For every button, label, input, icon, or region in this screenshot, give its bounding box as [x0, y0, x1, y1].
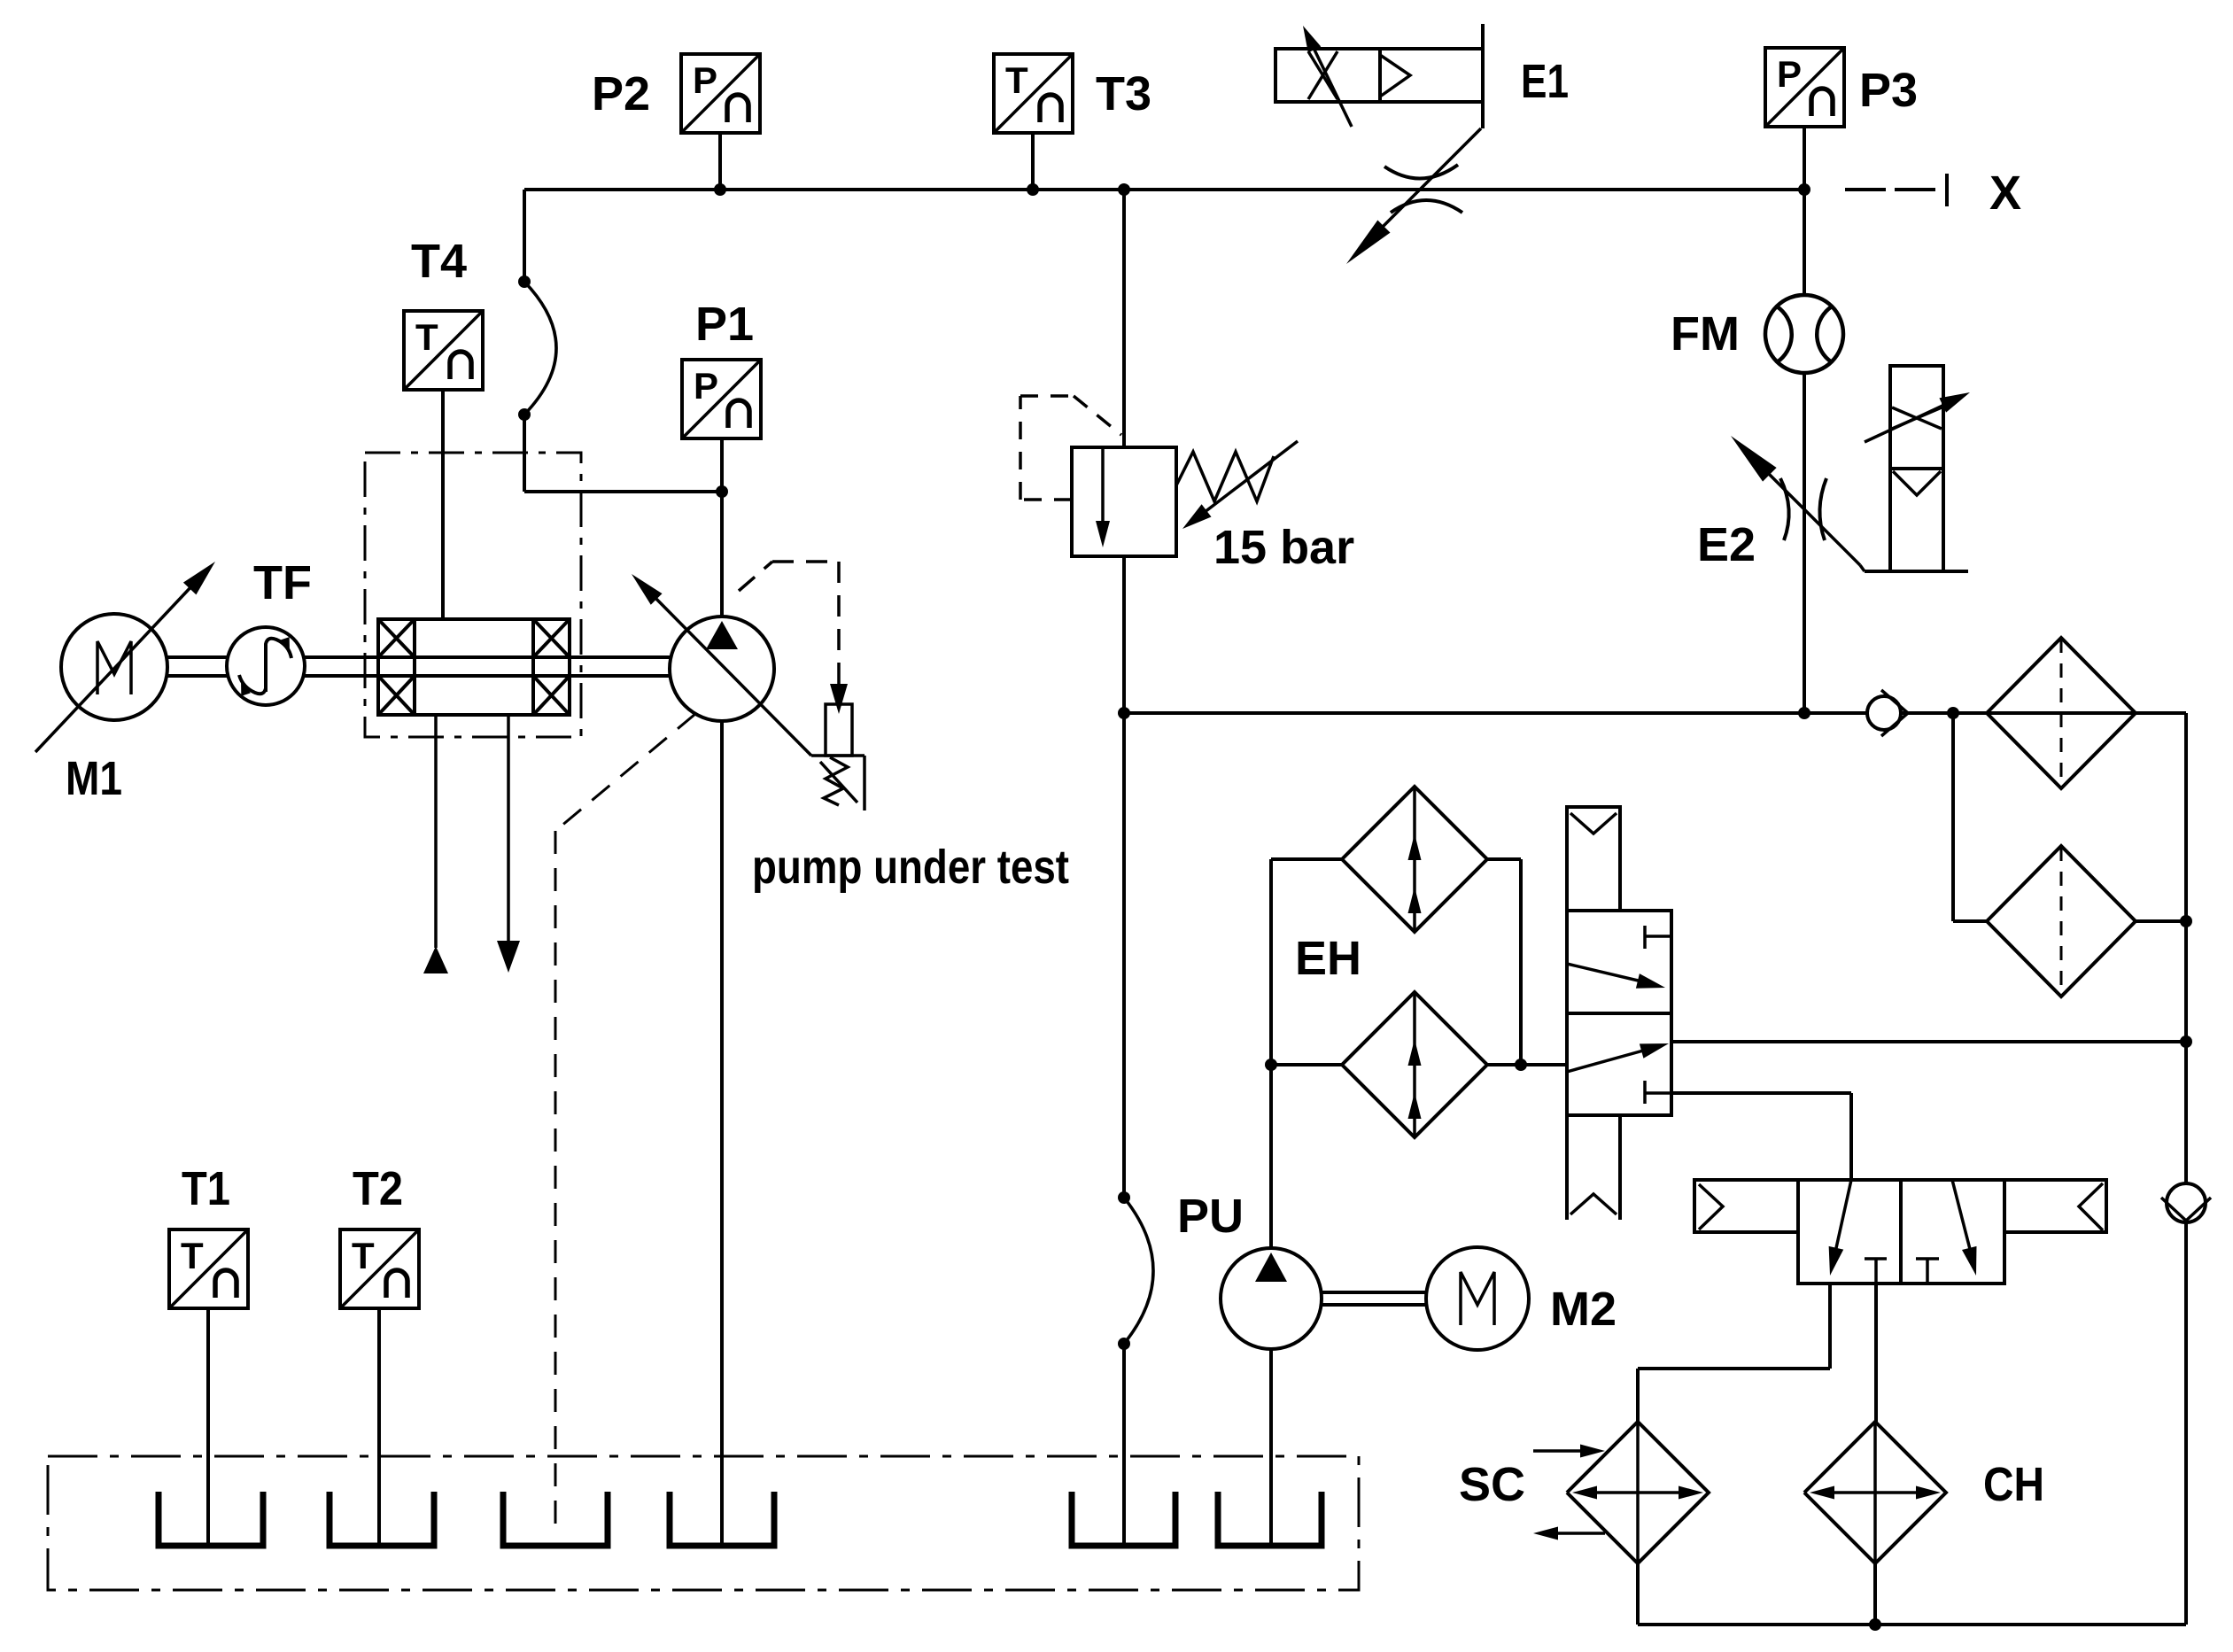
filter F1 diamond	[1987, 638, 2136, 788]
svg-text:M1: M1	[66, 752, 122, 805]
wire trunk below relief	[1122, 556, 1126, 713]
svg-text:T: T	[1005, 59, 1028, 101]
sensor T1 box	[169, 1229, 248, 1308]
wire V1 output to right trunk	[1671, 1040, 2186, 1043]
pump variable arrow	[632, 574, 811, 756]
tank port cup 5	[1072, 1492, 1175, 1546]
heat exchanger CH diamond	[1804, 1422, 1946, 1563]
label 15 bar	[1213, 521, 1354, 574]
valve V2 body	[1798, 1180, 2004, 1284]
label TF	[253, 556, 312, 609]
svg-text:P2: P2	[592, 67, 650, 120]
valve E2 flow control cartridge	[1865, 366, 1970, 571]
svg-text:T: T	[352, 1235, 375, 1276]
bearing block (pump mount)	[378, 619, 570, 715]
valve V1 bottom tank port	[1567, 1115, 1620, 1220]
label CH	[1983, 1458, 2044, 1511]
wire filter F2 to right trunk	[2136, 919, 2186, 923]
cooler SC coolant out arrow	[1533, 1527, 1605, 1540]
motor M2	[1426, 1247, 1529, 1350]
tank port cup 4	[670, 1492, 774, 1546]
wire T3 drop	[1031, 133, 1035, 190]
wire T1 drop	[206, 1308, 210, 1545]
heater EH lower diamond	[1342, 992, 1487, 1137]
wire P2 drop	[718, 133, 722, 190]
label T3	[1096, 67, 1151, 120]
svg-text:P: P	[693, 59, 717, 101]
tank boundary dash-dot box	[48, 1456, 1359, 1590]
svg-text:EH: EH	[1295, 932, 1361, 985]
svg-text:T3: T3	[1096, 67, 1151, 120]
label SC	[1459, 1458, 1525, 1511]
sensor P1 box	[682, 360, 761, 438]
sensor T2 box	[340, 1229, 419, 1308]
wire PU suction to tank	[1269, 1349, 1273, 1545]
label T4	[411, 235, 467, 288]
wire T4 drop	[441, 390, 445, 619]
pump compensator relief	[739, 562, 865, 810]
check valve on lower bus	[1867, 690, 1908, 736]
node right trunk F2 junction	[2180, 915, 2192, 927]
node trunk junction top	[1118, 183, 1130, 196]
wire filter F1 to right trunk	[2136, 711, 2186, 715]
cooler SC diamond	[1567, 1422, 1709, 1563]
valve E1 body	[1275, 26, 1483, 127]
shaft block-pump	[570, 657, 671, 676]
wire P1 drop to pump	[720, 492, 724, 617]
enclosure pump-under-test boundary	[365, 453, 581, 737]
sensor P3 box	[1765, 48, 1844, 127]
label T1	[182, 1162, 230, 1215]
wire trunk to hose	[1122, 713, 1126, 1198]
wire left branch lower segment	[524, 415, 722, 492]
svg-text:M2: M2	[1550, 1283, 1617, 1336]
svg-text:P: P	[1777, 53, 1802, 95]
hose break symbol (flexible line) on left branch	[518, 275, 556, 421]
wire SC bottom leg	[1636, 1563, 1640, 1625]
tank port cup 6	[1218, 1492, 1322, 1546]
wire trunk upper	[1122, 190, 1126, 447]
wire T2 drop	[377, 1308, 381, 1545]
svg-text:T4: T4	[411, 235, 467, 288]
svg-text:T2: T2	[353, 1162, 403, 1215]
svg-text:X: X	[1989, 167, 2021, 220]
motor M1	[61, 614, 167, 720]
svg-text:SC: SC	[1459, 1458, 1525, 1511]
svg-text:E2: E2	[1697, 518, 1756, 571]
wire P3 drop	[1803, 127, 1806, 190]
wire trunk hose to tank	[1122, 1344, 1126, 1545]
svg-text:T1: T1	[182, 1162, 230, 1215]
sensor T4 box	[404, 311, 483, 390]
throttle E1 diagonal with restrictor arcs	[1346, 128, 1481, 264]
node CH bottom junction	[1869, 1618, 1881, 1631]
label P3	[1859, 64, 1918, 117]
wire EH bottom row right	[1487, 1063, 1567, 1066]
label T2	[353, 1162, 403, 1215]
node trunk-lowbus junction	[1118, 707, 1130, 719]
torque/speed sensor TF	[227, 627, 305, 705]
tank port cup 2	[330, 1492, 434, 1546]
label M1	[66, 752, 122, 805]
relief valve pilot dashed line	[1020, 396, 1121, 500]
case drain dashed line	[555, 714, 695, 1532]
wire right trunk lower	[2184, 1222, 2188, 1625]
wire CH bottom leg	[1873, 1563, 1877, 1625]
node EH right rail junction	[1515, 1059, 1527, 1071]
relief valve spring	[1176, 452, 1274, 501]
node P1 junction	[716, 485, 728, 498]
svg-text:pump under test: pump under test	[752, 841, 1069, 894]
wire PU feed from EH	[1269, 1065, 1273, 1249]
svg-text:FM: FM	[1671, 307, 1740, 361]
wire dashed to node X	[1845, 188, 1935, 191]
node T3 junction	[1027, 183, 1039, 196]
svg-text:E1: E1	[1521, 55, 1569, 108]
node P2 junction	[714, 183, 726, 196]
label X	[1989, 167, 2021, 220]
check valve on right trunk	[2161, 1183, 2211, 1222]
filter F2 diamond	[1987, 846, 2136, 997]
tank port cup 1	[159, 1492, 263, 1546]
svg-text:P: P	[694, 365, 718, 407]
bearing block drain arrow down	[497, 715, 520, 973]
label FM	[1671, 307, 1740, 361]
bearing block drain arrow up	[423, 715, 448, 973]
svg-text:PU: PU	[1177, 1190, 1244, 1243]
relief valve 15 bar body	[1072, 447, 1176, 556]
svg-text:P1: P1	[695, 298, 754, 351]
wire P1 sensor drop	[720, 438, 724, 492]
hose break symbol on trunk	[1118, 1191, 1153, 1350]
sensor P2 box	[681, 54, 760, 133]
node P3 junction	[1798, 183, 1810, 196]
wire EH top row right	[1487, 859, 1521, 1065]
label M2	[1550, 1283, 1617, 1336]
shaft TF-bearing block	[303, 657, 378, 676]
label EH	[1295, 932, 1361, 985]
valve V1 top tank port	[1567, 807, 1620, 911]
label P2	[592, 67, 650, 120]
motor M1 variable arrow	[35, 562, 215, 752]
relief valve adjust arrow	[1182, 441, 1298, 529]
label pump under test	[752, 841, 1069, 894]
pump PU	[1221, 1248, 1322, 1349]
throttle E2 diagonal with restrictor arcs	[1731, 436, 1865, 571]
heater EH upper diamond	[1342, 787, 1487, 932]
wire FM vertical upper	[1803, 190, 1806, 294]
wire E2 bottom line	[1865, 570, 1968, 573]
label E1	[1521, 55, 1569, 108]
svg-text:P3: P3	[1859, 64, 1918, 117]
wire E1 right edge stub	[1481, 24, 1485, 128]
shaft M1-TF	[166, 657, 229, 676]
svg-text:15 bar: 15 bar	[1213, 521, 1354, 574]
svg-text:CH: CH	[1983, 1458, 2044, 1511]
node filter branch junction	[1947, 707, 1959, 719]
label E2	[1697, 518, 1756, 571]
shaft PU-M2 coupling	[1322, 1292, 1427, 1305]
wire EH left rail	[1271, 859, 1342, 1065]
wire filter branch down	[1953, 713, 1987, 921]
wire pump outlet to tank	[720, 721, 724, 1545]
cooler SC coolant in arrow	[1533, 1445, 1605, 1458]
label PU	[1177, 1190, 1244, 1243]
sensor T3 box	[994, 54, 1073, 133]
wire EH bottom row left	[1271, 1063, 1342, 1066]
wire right trunk upper	[2184, 713, 2188, 1183]
node EH-PU junction	[1265, 1059, 1277, 1071]
wire bottom return bus	[1638, 1623, 2186, 1626]
flow meter FM	[1765, 295, 1843, 373]
wire V2 tank port down to CH	[1874, 1284, 1878, 1422]
wire left branch corner down from bus	[523, 190, 526, 282]
label P1	[695, 298, 754, 351]
valve V2 left pilot	[1694, 1180, 1798, 1232]
valve V2 right pilot	[2004, 1180, 2106, 1232]
svg-text:T: T	[415, 316, 438, 358]
pump under test circle	[670, 617, 774, 721]
wire top pressure bus	[524, 188, 1804, 191]
wire V1 lower T to V2	[1671, 1093, 1851, 1180]
svg-text:TF: TF	[253, 556, 312, 609]
valve V1 body	[1567, 911, 1671, 1115]
node X terminator tick	[1945, 174, 1949, 206]
wire lower bus	[1124, 711, 2186, 715]
wire V2 left port down to SC	[1638, 1284, 1830, 1422]
node FM-lowbus junction	[1798, 707, 1810, 719]
node right trunk V-line junction	[2180, 1035, 2192, 1048]
tank port cup 3	[503, 1492, 608, 1546]
svg-text:T: T	[181, 1235, 204, 1276]
wire FM vertical lower	[1803, 374, 1806, 713]
